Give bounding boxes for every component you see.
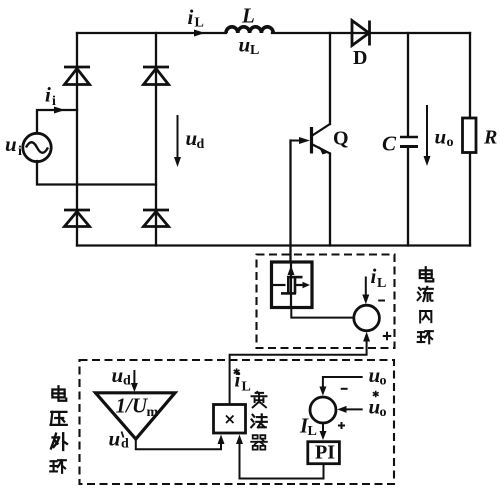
label u_o*: [373, 391, 379, 398]
wire Q emitter branch: [329, 154, 331, 246]
wire C branch: [407, 33, 409, 246]
transistor Q: [291, 124, 331, 154]
wire i_L input: [365, 277, 367, 297]
svg-text:L: L: [242, 380, 251, 395]
svg-text:i: i: [52, 94, 56, 109]
label 电压外环 (voltage outer loop): [50, 386, 67, 473]
hysteresis block: [272, 262, 313, 308]
summing circle S2 (voltage): [310, 397, 336, 423]
label plus S1: [383, 332, 392, 341]
wire S2 to PI: [322, 423, 324, 432]
svg-text:u: u: [186, 126, 198, 150]
svg-text:D: D: [353, 47, 367, 69]
wire left bridge leg: [76, 33, 78, 246]
diode bridge upper-right: [143, 67, 169, 85]
svg-text:i: i: [45, 83, 51, 107]
svg-text:u: u: [435, 125, 447, 149]
wire source top: [37, 110, 77, 133]
svg-text:R: R: [483, 127, 497, 149]
svg-text:d: d: [197, 137, 205, 152]
diode bridge lower-left: [64, 210, 90, 227]
svg-text:Q: Q: [333, 128, 349, 150]
wire R branch: [469, 33, 471, 246]
arrow u_d: [174, 115, 181, 167]
svg-text:m: m: [147, 405, 159, 420]
svg-text:i: i: [18, 144, 22, 159]
wire u_o input top: [323, 377, 363, 388]
wire u_o* input right: [341, 408, 363, 410]
svg-text:L: L: [308, 424, 317, 439]
summing circle S1 (current): [354, 305, 380, 331]
label minus S2: [341, 388, 348, 390]
diode bridge upper-left: [64, 67, 90, 85]
diode bridge lower-right: [143, 210, 169, 227]
diode D: [352, 21, 370, 46]
AC source u_i: [23, 133, 51, 161]
divider triangle 1/Um: [96, 393, 176, 439]
svg-text:L: L: [250, 43, 259, 58]
arrow i_L on top rail: [194, 30, 205, 37]
svg-text:u: u: [112, 363, 124, 387]
svg-text:L: L: [241, 4, 255, 28]
wire top rail: [77, 32, 470, 34]
svg-text:L: L: [195, 16, 204, 31]
arrow u_d into divider: [133, 370, 135, 385]
svg-text:d: d: [121, 437, 129, 452]
svg-text:u: u: [239, 33, 251, 57]
wire source bottom: [37, 161, 156, 185]
svg-text:i: i: [371, 264, 377, 288]
svg-text:i: i: [188, 5, 194, 29]
wire i_L* from multiplier to S1: [230, 335, 367, 405]
wire Q collector branch: [329, 33, 331, 124]
svg-text:L: L: [377, 276, 386, 291]
label x in multiplier: [226, 416, 234, 424]
dashed box voltage outer loop: [80, 360, 395, 484]
svg-text:u: u: [5, 132, 17, 156]
svg-text:d: d: [123, 374, 131, 389]
wire Q base drop to hysteresis block: [289, 141, 291, 263]
svg-text:o: o: [380, 405, 387, 420]
wire hysteresis to summing circle: [291, 308, 353, 318]
svg-text:u: u: [109, 427, 121, 451]
svg-text:1/U: 1/U: [116, 394, 149, 418]
svg-text:o: o: [380, 374, 387, 389]
label i_L*: [234, 368, 240, 375]
resistor R: [463, 118, 477, 153]
arrow i_i: [54, 107, 65, 114]
PI box: [308, 442, 340, 464]
wire PI to multiplier: [240, 438, 324, 479]
svg-text:o: o: [447, 135, 454, 150]
inductor L: [226, 27, 273, 33]
wire bottom rail: [77, 244, 470, 246]
label 电流内环 (current inner loop): [418, 267, 434, 343]
dashed box current inner loop: [257, 255, 395, 349]
svg-text:i: i: [235, 368, 241, 392]
wire right bridge leg: [155, 33, 157, 246]
svg-text:u: u: [369, 363, 381, 387]
wire u'_d to multiplier: [136, 438, 221, 449]
label 乘法器 (multiplier): [251, 392, 267, 450]
capacitor C: [400, 137, 418, 147]
arrow u_o: [424, 105, 431, 166]
label minus S1: [378, 300, 385, 302]
label plus S2: [338, 422, 345, 429]
multiplier box: [214, 405, 246, 434]
svg-text:u: u: [369, 395, 381, 419]
svg-text:C: C: [382, 132, 397, 156]
svg-text:PI: PI: [315, 442, 335, 464]
